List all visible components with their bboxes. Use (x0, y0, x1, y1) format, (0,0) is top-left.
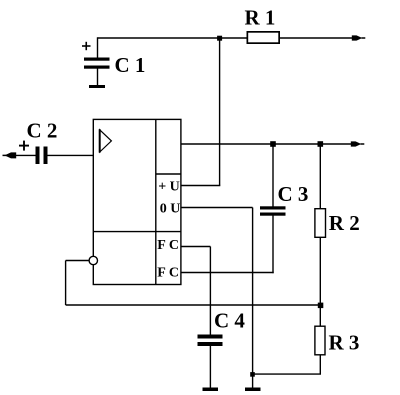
pin label FC upper (157, 238, 179, 253)
wire FC upper pin horizontal (181, 246, 211, 248)
svg-text:R 2: R 2 (329, 211, 360, 235)
label R1 (245, 6, 276, 30)
capacitor C1 (82, 42, 110, 69)
input arrow left (3, 152, 17, 158)
amplifier triangle (100, 129, 112, 152)
wire arrow to C2 (15, 154, 36, 156)
node junction R2 R3 divider (318, 303, 324, 309)
node junction C3 tap (270, 141, 276, 147)
wire vertical from top rail down to +U pin (219, 38, 221, 186)
resistor R3 (315, 326, 325, 355)
ground under C1 (89, 85, 105, 88)
wire FC lower pin horizontal (181, 272, 274, 274)
wire top supply rail (98, 37, 353, 39)
svg-text:0 U: 0 U (160, 202, 181, 217)
wire feedback bottom rail (66, 304, 321, 306)
label R2 (329, 211, 360, 235)
wire inverting input from bubble (66, 260, 90, 262)
wire 0U vertical drop (252, 208, 254, 388)
IC U1 box (93, 119, 181, 284)
svg-text:R 1: R 1 (245, 6, 276, 30)
capacitor C2 (19, 141, 48, 164)
wire C1 top vertical (97, 37, 99, 58)
wire FC upper vertical down to C4 (209, 247, 211, 335)
wire R2 top vertical (319, 144, 321, 209)
capacitor C3 (260, 206, 286, 215)
pin label FC lower (157, 265, 179, 280)
svg-text:C 3: C 3 (278, 182, 309, 206)
wire R2 bottom vertical (319, 238, 321, 326)
node junction bottom ground rail (250, 372, 255, 377)
svg-text:R 3: R 3 (329, 331, 360, 355)
wire C3 lower vertical (272, 216, 274, 274)
resistor R1 (247, 32, 279, 43)
wire C3 upper vertical (272, 144, 274, 207)
output arrow top right (352, 35, 366, 40)
wire R3 bottom vertical (319, 356, 321, 375)
wire +U pin horizontal (181, 185, 220, 187)
wire C1 bottom vertical (97, 69, 99, 86)
svg-text:C 2: C 2 (27, 119, 58, 143)
label C1 (115, 53, 146, 77)
resistor R2 (315, 209, 326, 238)
node junction of R1 tap on top rail (217, 36, 222, 41)
label C2 (27, 119, 58, 143)
svg-text:+ U: + U (158, 180, 180, 195)
pin label +U (158, 180, 180, 195)
pin label 0U (160, 202, 181, 217)
node junction R2 tap (318, 141, 324, 147)
wire feedback vertical left (65, 261, 67, 306)
svg-text:C 4: C 4 (214, 309, 245, 333)
capacitor C4 (198, 335, 223, 347)
svg-text:F C: F C (157, 238, 179, 253)
wire 0U pin horizontal (181, 207, 253, 209)
svg-text:C 1: C 1 (115, 53, 146, 77)
wire C2 to IC input (48, 154, 95, 156)
label R3 (329, 331, 360, 355)
ground under 0U drop (245, 388, 261, 392)
inversion bubble (89, 256, 97, 264)
ground under C4 (203, 388, 219, 392)
output arrow mid right (351, 141, 365, 146)
svg-text:F C: F C (157, 265, 179, 280)
label C3 (278, 182, 309, 206)
wire C4 bottom vertical (209, 346, 211, 388)
wire mid output rail (181, 143, 352, 145)
label C4 (214, 309, 245, 333)
wire bottom rail to ground node (253, 373, 321, 375)
